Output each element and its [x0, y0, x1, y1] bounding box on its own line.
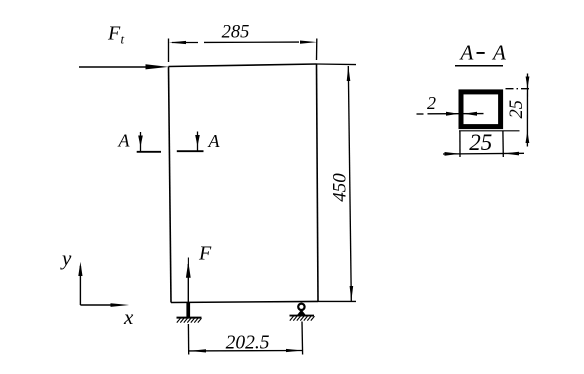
svg-text:y: y	[60, 246, 72, 270]
svg-text:F: F	[107, 23, 121, 45]
svg-text:285: 285	[222, 23, 250, 43]
svg-text:A: A	[118, 131, 131, 151]
svg-text:x: x	[123, 305, 134, 329]
svg-text:A: A	[459, 41, 474, 65]
svg-text:450: 450	[330, 173, 351, 202]
svg-text:A: A	[491, 41, 506, 65]
svg-text:25: 25	[469, 130, 492, 155]
svg-text:25: 25	[507, 100, 527, 119]
svg-text:F: F	[198, 243, 212, 265]
svg-text:2: 2	[427, 93, 436, 113]
svg-text:202.5: 202.5	[226, 333, 270, 354]
svg-text:t: t	[121, 32, 125, 47]
svg-text:A: A	[208, 131, 221, 151]
